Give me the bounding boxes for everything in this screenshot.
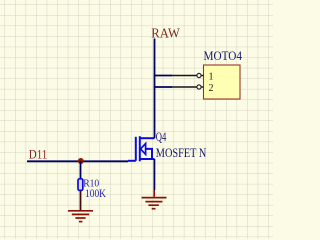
junction xyxy=(78,158,84,164)
svg-text:D11: D11 xyxy=(29,146,48,161)
resistor R10 body xyxy=(78,179,83,191)
channel bar xyxy=(139,136,141,161)
wire RAW vertical xyxy=(154,39,156,139)
svg-text:MOTO4: MOTO4 xyxy=(204,49,243,63)
body lead xyxy=(146,149,152,159)
pin 2 xyxy=(171,83,214,94)
svg-text:2: 2 xyxy=(209,83,214,94)
svg-text:100K: 100K xyxy=(85,188,107,200)
svg-text:1: 1 xyxy=(209,72,214,83)
wire branch to pin 1 xyxy=(154,75,172,77)
connector MOTO4 body xyxy=(204,65,241,99)
drain lead xyxy=(140,137,155,139)
gate bar xyxy=(135,137,137,161)
wire junction to resistor xyxy=(80,161,82,178)
source lead xyxy=(140,158,155,160)
wire branch to pin 2 xyxy=(154,86,172,88)
svg-text:MOSFET N: MOSFET N xyxy=(156,146,207,160)
transistor Q4 MOSFET N symbol xyxy=(128,136,155,161)
gate lead xyxy=(128,160,136,162)
power ground GND right xyxy=(142,190,167,209)
svg-text:Q4: Q4 xyxy=(156,130,167,144)
pin 1 xyxy=(171,72,214,83)
svg-text:RAW: RAW xyxy=(151,25,180,40)
wire D11 horizontal xyxy=(27,160,128,162)
wire resistor to ground xyxy=(80,191,82,211)
arrow xyxy=(141,144,146,155)
wire source to ground xyxy=(153,159,155,190)
power ground GND left xyxy=(68,211,93,222)
